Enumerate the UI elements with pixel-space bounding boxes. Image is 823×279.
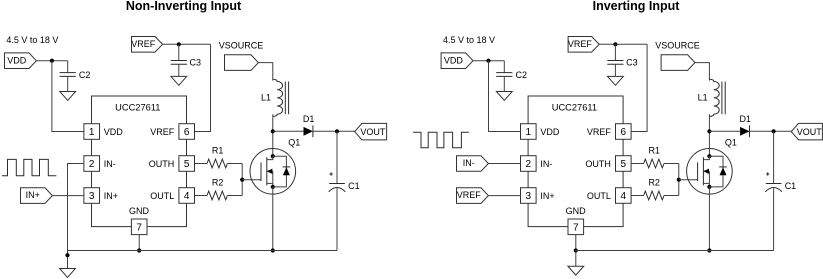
pin 5 box	[179, 156, 195, 172]
wire VOUT node to C1	[336, 131, 338, 183]
svg-text:VREF: VREF	[131, 39, 156, 49]
svg-text:VDD: VDD	[444, 55, 464, 65]
pin 2 box	[84, 156, 100, 172]
svg-text:C1: C1	[348, 181, 360, 191]
svg-text:1: 1	[89, 127, 95, 138]
wire gate node to Q1 gate	[242, 179, 261, 181]
Q1 drain stub	[703, 156, 709, 159]
wire VDD flag to C2	[36, 60, 67, 62]
svg-text:UCC27611: UCC27611	[552, 103, 597, 113]
svg-text:Inverting Input: Inverting Input	[593, 0, 681, 13]
ground below C2	[496, 92, 512, 101]
ground rail	[576, 250, 774, 252]
capacitor C1	[329, 183, 345, 185]
svg-text:IN+: IN+	[104, 191, 118, 201]
wire gate link vertical	[678, 164, 680, 196]
capacitor C2	[496, 72, 512, 74]
svg-text:C2: C2	[79, 70, 91, 80]
svg-text:R2: R2	[648, 178, 660, 188]
svg-text:C1: C1	[785, 181, 797, 191]
svg-text:IN-: IN-	[540, 159, 552, 169]
junction Q1 source on rail	[707, 248, 711, 252]
inductor L1 winding	[273, 79, 283, 116]
resistor R1	[207, 159, 227, 168]
flag IN-	[457, 156, 489, 172]
pin 7 box	[568, 219, 584, 235]
IC U1 UCC27611 body	[92, 96, 187, 227]
svg-text:4: 4	[621, 191, 627, 202]
flag VDD	[5, 53, 37, 69]
wire Q1 source to rail	[708, 187, 710, 251]
junction ground stub	[65, 253, 69, 257]
pin 7 box	[131, 219, 147, 235]
junction gate node	[240, 178, 244, 182]
junction VOUT node	[335, 129, 339, 133]
capacitor C3	[171, 60, 187, 62]
svg-text:R1: R1	[212, 146, 224, 156]
wire VDD flag to C2	[473, 60, 504, 62]
IC U1 UCC27611 body	[528, 96, 623, 227]
wire VREF to pin 6	[631, 44, 647, 131]
pin 3 box	[521, 188, 537, 204]
svg-text:D1: D1	[303, 114, 315, 124]
flag VREF top	[132, 37, 163, 53]
Q1 source stub	[267, 182, 273, 184]
junction pin 7 on rail	[574, 248, 578, 252]
Q1 channel bar	[702, 157, 704, 185]
junction switch node	[707, 129, 711, 133]
svg-text:7: 7	[136, 222, 142, 233]
svg-text:3: 3	[526, 191, 532, 202]
input square wave	[2, 159, 56, 175]
svg-text:Q1: Q1	[288, 138, 300, 148]
wire VOUT node to C1	[773, 131, 775, 183]
wire VREF flag to corner	[599, 43, 647, 45]
svg-text:R1: R1	[648, 146, 660, 156]
inductor L1 core	[284, 82, 286, 115]
pin 6 box	[616, 124, 632, 140]
wire C2 to ground	[503, 76, 505, 91]
Q1 gate bar	[697, 162, 699, 181]
svg-text:1: 1	[526, 127, 532, 138]
wire L1 to Q1 drain	[272, 114, 274, 156]
svg-text:VREF: VREF	[150, 127, 175, 137]
pin 5 box	[616, 156, 632, 172]
wire VREF flag to corner	[163, 43, 211, 45]
Q1 body diode	[283, 167, 290, 175]
wire pin 2 to ground	[68, 164, 85, 269]
svg-text:4: 4	[184, 191, 190, 202]
transistor Q1 body	[250, 149, 296, 195]
pin 4 box	[179, 188, 195, 204]
svg-text:5: 5	[621, 159, 627, 170]
wire to C2 top	[503, 61, 505, 73]
wire pin 5 to R1	[631, 163, 644, 165]
Q1 body-source link	[272, 171, 274, 187]
pin 1 box	[521, 124, 537, 140]
Q1 body diode branch	[709, 156, 723, 187]
wire switch node to D1	[273, 130, 304, 132]
wire to C2 top	[67, 61, 69, 73]
junction VOUT node	[772, 129, 776, 133]
wire VDD node to pin 1	[52, 61, 84, 132]
flag VSOURCE	[661, 55, 695, 71]
svg-text:L1: L1	[261, 93, 271, 103]
input square wave inverted	[413, 132, 469, 148]
wire C1 to ground rail	[336, 188, 338, 250]
wire VREF node to C3	[614, 44, 616, 60]
svg-text:VOUT: VOUT	[360, 127, 386, 137]
wire R2 to gate link	[664, 195, 679, 197]
svg-text:2: 2	[89, 159, 95, 170]
svg-text:VREF: VREF	[457, 190, 482, 200]
Q1 body arrow	[267, 170, 273, 172]
wire switch node to D1	[709, 130, 740, 132]
wire R2 to gate link	[227, 195, 242, 197]
svg-text:VREF: VREF	[568, 39, 593, 49]
wire pin 4 to R2	[195, 195, 208, 197]
wire IN+ flag to pin 3	[52, 195, 84, 197]
flag VDD	[441, 53, 473, 69]
junction gate node	[677, 178, 681, 182]
flag VOUT	[355, 123, 387, 139]
svg-text:VDD: VDD	[104, 127, 124, 137]
pin 1 box	[84, 124, 100, 140]
junction pin 7 on rail	[137, 248, 141, 252]
Q1 body arrow	[703, 170, 709, 172]
wire pin 7 to ground rail	[138, 235, 140, 251]
svg-text:2: 2	[526, 159, 532, 170]
svg-text:4.5 V to 18 V: 4.5 V to 18 V	[6, 35, 58, 45]
svg-text:VOUT: VOUT	[797, 127, 823, 137]
resistor R2	[207, 191, 227, 200]
wire pin 5 to R1	[195, 163, 208, 165]
pin 2 box	[521, 156, 537, 172]
Q1 source internal dot	[271, 185, 275, 189]
ground symbol below pin 7	[568, 266, 584, 275]
junction Q1 source on rail	[271, 248, 275, 252]
svg-text:R2: R2	[212, 178, 224, 188]
svg-text:IN-: IN-	[104, 159, 116, 169]
svg-text:C3: C3	[626, 58, 638, 68]
wire D1 to VOUT	[750, 130, 792, 132]
capacitor C2	[60, 72, 76, 74]
capacitor C3	[607, 60, 623, 62]
C1 plus sign	[329, 173, 332, 175]
pin 4 box	[616, 188, 632, 204]
Q1 source internal dot	[707, 185, 711, 189]
svg-text:VREF: VREF	[587, 127, 612, 137]
resistor R2	[644, 191, 664, 200]
ground below C3	[171, 76, 187, 85]
Q1 drain stub	[267, 156, 273, 159]
wire VDD node to pin 1	[489, 61, 521, 132]
wire R1 to gate link	[227, 163, 242, 165]
svg-text:6: 6	[621, 127, 627, 138]
wire Q1 source to rail	[272, 187, 274, 251]
transistor Q1 body	[687, 149, 733, 195]
junction switch node	[271, 129, 275, 133]
resistor R1	[644, 159, 664, 168]
flag VOUT	[791, 123, 822, 139]
svg-text:VDD: VDD	[7, 55, 27, 65]
svg-text:GND: GND	[566, 206, 587, 216]
pin 6 box	[179, 124, 195, 140]
capacitor C1	[766, 183, 782, 185]
wire pin 4 to R2	[631, 195, 644, 197]
svg-text:VSOURCE: VSOURCE	[219, 40, 264, 50]
wire VSOURCE to L1	[695, 63, 709, 81]
Q1 drain internal dot	[707, 154, 711, 158]
svg-text:OUTL: OUTL	[587, 191, 611, 201]
svg-text:IN-: IN-	[463, 158, 475, 168]
svg-text:5: 5	[184, 159, 190, 170]
svg-text:OUTH: OUTH	[149, 159, 175, 169]
svg-text:IN+: IN+	[540, 191, 554, 201]
junction VREF node	[613, 42, 617, 46]
flag IN+	[21, 188, 53, 204]
diode D1	[304, 127, 313, 136]
Q1 body diode branch	[273, 156, 287, 187]
svg-text:VDD: VDD	[540, 127, 560, 137]
svg-text:UCC27611: UCC27611	[115, 103, 160, 113]
inductor L1 core	[721, 82, 723, 115]
pin 3 box	[84, 188, 100, 204]
svg-text:6: 6	[184, 127, 190, 138]
wire rail to ground symbol	[575, 251, 577, 267]
wire VREF node to C3	[178, 44, 180, 60]
wire VREF to pin 6	[195, 44, 211, 131]
svg-text:7: 7	[573, 222, 579, 233]
diode D1	[740, 127, 749, 136]
svg-text:Non-Inverting Input: Non-Inverting Input	[126, 0, 242, 13]
Q1 body diode	[720, 167, 727, 175]
flag VREF top	[568, 37, 599, 53]
svg-text:Q1: Q1	[725, 138, 737, 148]
wire gate node to Q1 gate	[679, 179, 698, 181]
junction VDD node	[50, 59, 54, 63]
inductor L1 winding	[709, 79, 719, 116]
svg-text:C3: C3	[190, 58, 202, 68]
wire pin 7 to ground rail	[575, 235, 577, 251]
svg-text:OUTH: OUTH	[585, 159, 611, 169]
svg-text:3: 3	[89, 191, 95, 202]
svg-text:IN+: IN+	[26, 190, 40, 200]
wire IN- flag to pin 2	[488, 163, 520, 165]
ground below C2	[60, 92, 76, 101]
flag VSOURCE	[225, 55, 259, 71]
junction VDD node	[486, 59, 490, 63]
svg-text:L1: L1	[698, 93, 708, 103]
ground rail	[68, 250, 338, 252]
wire VREF flag to pin 3	[488, 195, 520, 197]
Q1 source stub	[703, 182, 709, 184]
svg-text:4.5 V to 18 V: 4.5 V to 18 V	[443, 35, 495, 45]
wire D1 to VOUT	[313, 130, 355, 132]
wire C1 to ground rail	[773, 188, 775, 250]
svg-text:GND: GND	[129, 206, 150, 216]
svg-text:VSOURCE: VSOURCE	[655, 40, 700, 50]
junction VREF node	[177, 42, 181, 46]
wire VSOURCE to L1	[259, 63, 273, 81]
svg-text:OUTL: OUTL	[150, 191, 174, 201]
Q1 body-source link	[708, 171, 710, 187]
C1 plus sign	[766, 173, 769, 175]
svg-text:C2: C2	[516, 70, 528, 80]
Q1 channel bar	[266, 157, 268, 185]
flag VREF input	[457, 188, 489, 204]
ground symbol bottom left	[60, 269, 76, 278]
wire gate link vertical	[241, 164, 243, 196]
Q1 gate bar	[260, 162, 262, 181]
ground below C3	[608, 76, 624, 85]
wire C3 to ground	[614, 64, 616, 76]
wire C2 to ground	[67, 76, 69, 91]
wire R1 to gate link	[664, 163, 679, 165]
svg-text:D1: D1	[739, 114, 751, 124]
wire L1 to Q1 drain	[708, 114, 710, 156]
Q1 drain internal dot	[271, 154, 275, 158]
wire C3 to ground	[178, 64, 180, 76]
